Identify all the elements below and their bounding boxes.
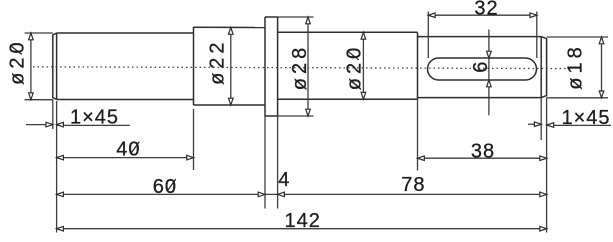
right end face lower extension (546, 98, 548, 233)
arrow dia20L up (29, 33, 34, 40)
dia18 dimension line (601, 37, 603, 98)
svg-text:ø22: ø22 (206, 38, 228, 84)
dia20 left dimension line (30, 33, 32, 100)
right end face (541, 37, 546, 98)
collar left face (264, 17, 266, 116)
dia18 top extension (547, 36, 608, 38)
svg-text:6: 6 (470, 61, 492, 73)
slash in zero of 60 (167, 179, 176, 191)
dim 142 line (57, 228, 547, 230)
arrow 60 left (57, 192, 64, 197)
arrow chamferL left-point (57, 122, 64, 127)
dia20 left bottom extension (25, 99, 53, 101)
svg-text:ø28: ø28 (289, 44, 311, 90)
dia28 top extension (278, 16, 314, 18)
svg-text:60: 60 (153, 176, 177, 198)
arrow 78 right (540, 192, 547, 197)
dim 40 line (57, 157, 194, 159)
section1 top edge (57, 32, 194, 34)
section5 bottom edge (418, 97, 542, 99)
collar top edge (265, 16, 278, 18)
arrow 38 left (418, 156, 425, 161)
section2 top edge (194, 26, 266, 28)
slash in zero of dia20 right (347, 51, 359, 60)
svg-text:1×45: 1×45 (561, 107, 610, 129)
collar right face (277, 17, 279, 116)
keyway 6 dimension line (488, 30, 490, 116)
svg-text:1×45: 1×45 (70, 106, 119, 128)
arrow 38 right (540, 156, 547, 161)
keyway slot (428, 58, 537, 80)
right chamfer line (540, 37, 542, 98)
dia22 dimension line (230, 28, 232, 106)
centerline (33, 67, 570, 69)
right chamfer lower extension (540, 98, 542, 140)
left chamfer extension (dim rows) (56, 101, 58, 233)
arrow dia28 down (306, 109, 311, 116)
arrow dia22 down (229, 98, 234, 105)
shaft outline (53, 17, 547, 116)
arrow 40 right (187, 155, 194, 160)
step1 extension (193, 109, 195, 170)
chamfer right underline (547, 124, 611, 126)
section2 bottom edge (194, 104, 266, 106)
arrow 32 right (530, 13, 537, 18)
left end face lower extension (52, 100, 54, 130)
keyway right extension (536, 12, 538, 59)
dia28 bottom extension (278, 115, 314, 117)
arrow 78 left (278, 192, 285, 197)
left chamfer line (56, 33, 58, 100)
arrow dia20R up (361, 32, 366, 39)
arrow 32 left (428, 13, 435, 18)
chamfer left leader (26, 124, 47, 126)
collar right extension (277, 116, 279, 209)
dia20 right dimension line (362, 32, 364, 99)
keyway left extension (427, 12, 429, 59)
chamfer left underline (57, 124, 130, 126)
svg-text:ø20: ø20 (6, 38, 28, 84)
arrow 60 right (258, 192, 265, 197)
arrow dia18 down (599, 91, 604, 98)
svg-text:ø18: ø18 (564, 43, 586, 89)
left end face (53, 33, 57, 100)
svg-text:40: 40 (116, 138, 140, 160)
svg-text:ø20: ø20 (343, 44, 365, 90)
svg-text:142: 142 (285, 210, 321, 232)
arrow key6 down (487, 51, 492, 58)
shoulder step2 (417, 32, 419, 99)
section4 bottom edge (278, 98, 418, 100)
collar bottom edge (265, 115, 278, 117)
arrow dia20L down (29, 93, 34, 100)
arrow chamferR right-point (534, 122, 541, 127)
arrow 142 right (540, 226, 547, 231)
arrow 142 left (57, 226, 64, 231)
svg-text:78: 78 (401, 174, 425, 196)
dia18 bottom extension (547, 97, 608, 99)
section1 bottom edge (57, 99, 194, 101)
dim 32 line (428, 14, 537, 16)
shoulder step1 (193, 27, 195, 105)
svg-text:38: 38 (471, 140, 495, 162)
arrow dia20R down (361, 92, 366, 99)
arrow dia28 up (306, 17, 311, 24)
slash in zero of dia20 left (10, 45, 22, 54)
svg-text:32: 32 (474, 0, 498, 20)
arrow chamferR left-point (547, 123, 554, 128)
arrow 40 left (57, 155, 64, 160)
arrow chamferL right-point (46, 122, 53, 127)
dim 60-4-78 line (57, 193, 547, 195)
arrow key6 up (487, 80, 492, 87)
arrow dia22 up (229, 28, 234, 35)
dia28 dimension line (307, 17, 309, 116)
collar left extension (264, 116, 266, 209)
dia20 left top extension (25, 32, 53, 34)
svg-text:4: 4 (278, 169, 290, 191)
section4 top edge (278, 31, 418, 33)
chamfer right leader (528, 123, 535, 125)
arrow dia18 up (599, 37, 604, 44)
step2 extension (417, 99, 419, 170)
dim 38 line (418, 157, 547, 159)
section5 top edge (418, 36, 542, 38)
slash in zero of 40 (131, 142, 140, 154)
